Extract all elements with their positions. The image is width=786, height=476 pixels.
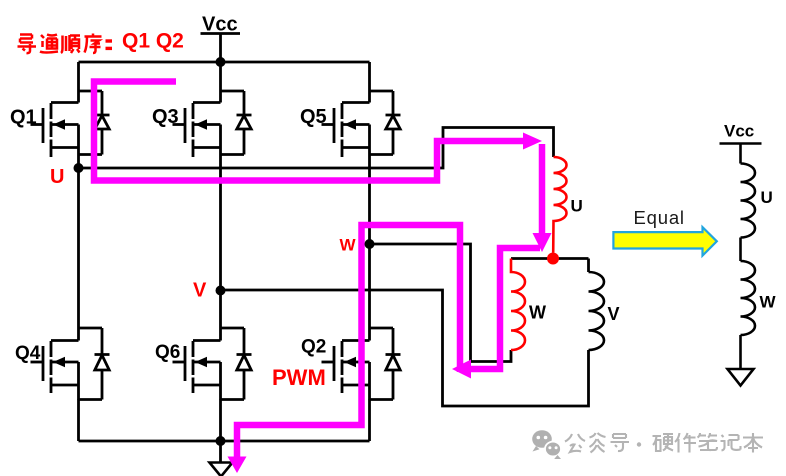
svg-text:Q1: Q1 — [10, 107, 37, 129]
svg-text:W: W — [340, 236, 357, 255]
svg-text:Equal: Equal — [634, 207, 685, 228]
svg-text:Q2: Q2 — [301, 337, 326, 358]
svg-text:Vcc: Vcc — [724, 122, 754, 141]
svg-text:U: U — [50, 166, 64, 188]
svg-text:PWM: PWM — [272, 365, 326, 390]
svg-text:Q6: Q6 — [155, 342, 180, 363]
svg-text:U: U — [761, 188, 773, 207]
svg-text:Q4: Q4 — [15, 343, 41, 364]
svg-text:Q3: Q3 — [152, 106, 179, 128]
svg-text:U: U — [571, 197, 583, 216]
svg-text:Q5: Q5 — [300, 106, 327, 128]
svg-text:W: W — [760, 293, 777, 312]
svg-text:V: V — [608, 304, 620, 324]
svg-text:Vcc: Vcc — [202, 14, 238, 36]
svg-text:W: W — [529, 303, 546, 323]
svg-text:Q1 Q2: Q1 Q2 — [122, 30, 184, 53]
svg-text:V: V — [193, 280, 207, 302]
